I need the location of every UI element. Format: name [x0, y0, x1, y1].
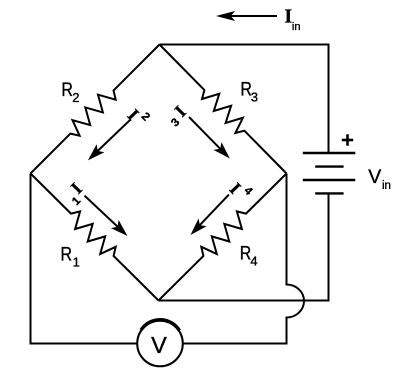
- svg-text:I: I: [226, 179, 245, 198]
- svg-text:2: 2: [72, 90, 79, 105]
- wire: [31, 174, 138, 344]
- current arrow I3: [189, 117, 221, 150]
- resistor R1: [31, 174, 159, 301]
- svg-text:V: V: [368, 166, 381, 188]
- wire: [159, 195, 329, 301]
- label I4: [226, 179, 245, 198]
- label I3: [171, 102, 190, 121]
- voltmeter V: [137, 321, 183, 367]
- label R3: [240, 78, 252, 100]
- svg-text:R: R: [61, 243, 73, 265]
- resistor R4: [159, 174, 287, 301]
- svg-text:in: in: [292, 21, 301, 33]
- svg-text:3: 3: [251, 89, 258, 104]
- svg-text:4: 4: [241, 185, 254, 198]
- svg-text:3: 3: [169, 116, 182, 129]
- resistor R3: [160, 45, 287, 174]
- svg-text:in: in: [382, 180, 391, 192]
- label R4: [240, 242, 252, 264]
- svg-text:I: I: [67, 179, 86, 198]
- label R1: [61, 243, 73, 265]
- svg-text:V: V: [151, 332, 167, 358]
- current arrow I1: [85, 196, 119, 228]
- svg-text:2: 2: [139, 111, 152, 124]
- label R2: [61, 79, 73, 101]
- battery plus sign: [342, 134, 353, 145]
- label I2: [124, 105, 143, 124]
- arrow Iin: [229, 15, 277, 17]
- resistor R2: [31, 45, 160, 174]
- svg-text:1: 1: [73, 255, 80, 270]
- svg-text:I: I: [124, 105, 143, 124]
- wire with hop over battery return: [183, 174, 304, 344]
- current arrow I4: [199, 195, 229, 227]
- svg-text:R: R: [61, 79, 73, 101]
- current arrow I2: [97, 120, 131, 152]
- label I1: [67, 179, 86, 198]
- wire: [160, 45, 329, 153]
- svg-text:4: 4: [250, 254, 257, 269]
- battery V1: [303, 153, 356, 193]
